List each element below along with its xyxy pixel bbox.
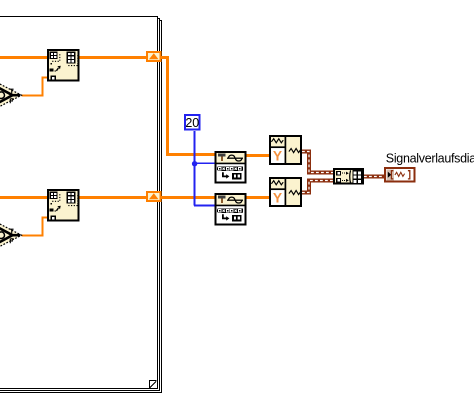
select S1 bbox=[0, 81, 22, 109]
sequence frame 1 (front) bbox=[0, 17, 158, 389]
svg-text:Y: Y bbox=[273, 190, 282, 205]
waveform chart indicator bbox=[385, 168, 415, 182]
wire W10 select S2 to A2 bbox=[22, 218, 48, 236]
wire W14 dynamic Y1 to merge bbox=[302, 152, 334, 173]
wire W2 A1 to tunnel T1 bbox=[79, 56, 146, 59]
sequence frame 2 (middle) bbox=[0, 19, 160, 391]
wire W9 select S1 to A1 bbox=[22, 78, 48, 96]
folded corner of frame 1 bbox=[150, 381, 157, 389]
Insert Into Array A2 bbox=[48, 190, 79, 221]
sequence frame 3 (back) bbox=[0, 21, 162, 393]
junction J1 blue bbox=[192, 161, 197, 166]
svg-text:Signalverlaufsdiagramm: Signalverlaufsdiagramm bbox=[386, 151, 474, 165]
wire W12 blue branch to filter F1 bbox=[194, 162, 215, 164]
wire W8 filter F2 to Y2 bbox=[247, 196, 270, 199]
wire W1 array into A1 bbox=[0, 56, 47, 59]
merge signals M1 bbox=[334, 169, 363, 183]
tunnel T1 bbox=[147, 52, 161, 61]
filter F1 bbox=[215, 152, 246, 183]
svg-text:20: 20 bbox=[185, 116, 199, 130]
wire W7 filter F1 to Y1 bbox=[247, 154, 270, 157]
wire W13 blue branch to filter F2 bbox=[194, 205, 215, 207]
wire W15 dynamic Y2 to merge bbox=[302, 181, 334, 193]
filter F2 bbox=[215, 194, 246, 225]
convert to dynamic Y2 bbox=[270, 178, 302, 207]
select S2 bbox=[0, 221, 22, 249]
wire W5 A2 to tunnel T2 bbox=[79, 196, 146, 199]
wire W4 array into A2 bbox=[0, 196, 47, 199]
convert to dynamic Y1 bbox=[270, 136, 302, 165]
svg-text:Y: Y bbox=[273, 148, 282, 163]
wire W6 tunnel T2 to filter F2 bbox=[161, 196, 215, 199]
wire W16 dynamic merge to chart bbox=[364, 175, 385, 179]
numeric constant 20 bbox=[185, 115, 199, 130]
wire W3 tunnel T1 to filter F1 bbox=[161, 58, 215, 155]
wire W11 blue constant 20 feed bbox=[194, 131, 196, 206]
Insert Into Array A1 bbox=[48, 50, 79, 81]
tunnel T2 bbox=[147, 192, 161, 201]
